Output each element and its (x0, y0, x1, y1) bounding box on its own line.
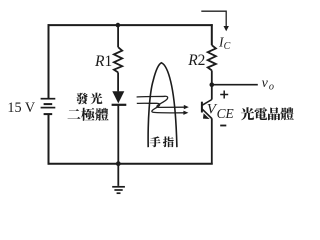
svg-text:R1: R1 (94, 53, 112, 70)
resistor R2 (208, 45, 216, 70)
ground bar 3 (117, 192, 121, 194)
wire R1 top lead (117, 25, 119, 47)
LED D1 triangle (112, 91, 124, 103)
battery plate short bottom (44, 113, 53, 115)
wire battery bottom lead (48, 115, 50, 165)
node junction dot vo (210, 82, 215, 87)
label + (Vce plus) (220, 91, 228, 99)
resistor R1 (114, 47, 122, 72)
label 手指 (150, 136, 161, 147)
label 光電晶體 (241, 107, 254, 120)
Q1 base bar (201, 102, 203, 113)
top rail wire (48, 24, 213, 26)
battery plate long (41, 107, 56, 109)
label - (Vce minus) (220, 125, 226, 127)
ground bar 2 (114, 189, 122, 191)
current Ic indicator bracket (201, 11, 226, 27)
ground stem (117, 164, 119, 186)
node junction dot top (R1 branch) (116, 23, 121, 28)
label 發光 (76, 93, 88, 105)
svg-text:R2: R2 (187, 52, 205, 69)
Q1 collector diagonal (202, 100, 212, 106)
ground bar 1 (112, 186, 125, 188)
battery 15V plate long top (41, 98, 56, 100)
finger outline (148, 63, 177, 147)
bottom rail wire (48, 163, 213, 165)
svg-text:15 V: 15 V (7, 100, 35, 116)
svg-text:CE: CE (217, 106, 234, 121)
battery plate short (44, 103, 53, 105)
wire left branch (battery top lead) (48, 24, 50, 98)
phototransistor Q1 collector wire (211, 85, 213, 100)
LED D1 cathode bar (112, 104, 127, 106)
Q1 emitter wire to bottom rail (211, 118, 213, 164)
wire LED to bottom rail (117, 105, 119, 164)
wire R2 to vo node (211, 70, 213, 84)
wire vo output (212, 84, 258, 86)
light ray arrow 2 (lower) (137, 103, 184, 113)
svg-text:C: C (224, 41, 231, 52)
Q1 emitter diagonal with arrow (202, 109, 212, 118)
wire R1 to LED (117, 72, 119, 91)
light ray arrow 1 (upper) (137, 96, 185, 107)
wire R2 top lead (from rail corner) (211, 24, 213, 45)
svg-text:o: o (269, 82, 274, 93)
label 二極體 (68, 109, 81, 119)
svg-text:v: v (262, 76, 269, 91)
node junction dot bottom (ground node) (116, 161, 121, 166)
